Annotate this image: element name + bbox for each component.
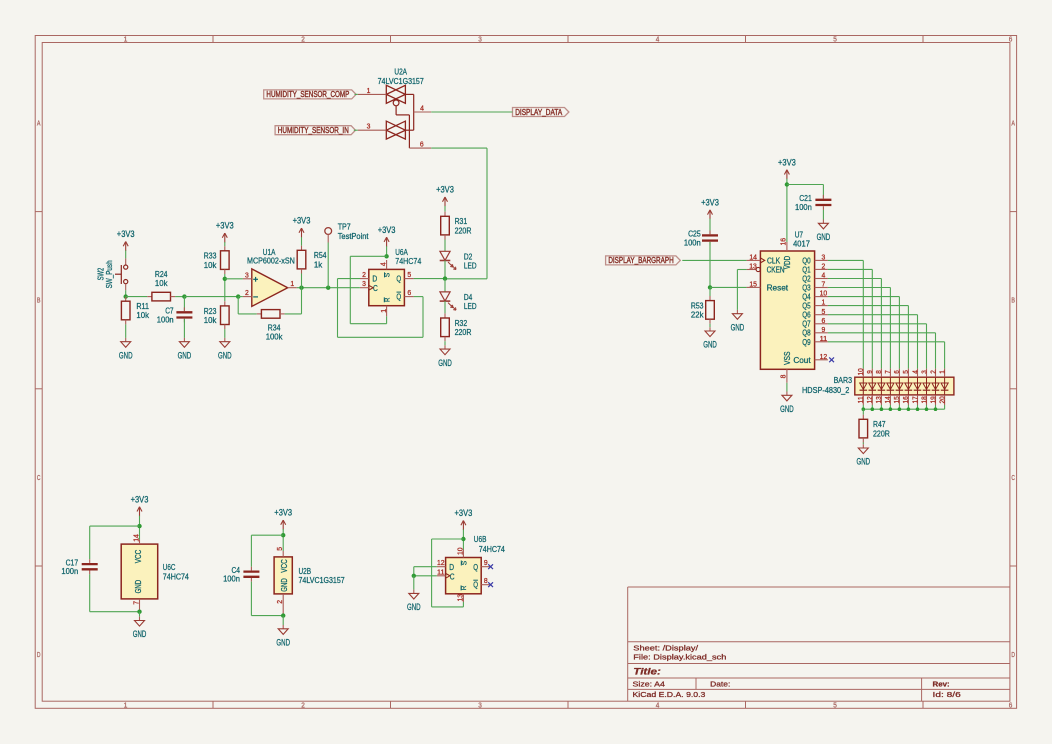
- pin 3 (U1A +): [243, 278, 252, 280]
- pin 2 (U7 Q1): [815, 268, 828, 270]
- svg-text:1: 1: [124, 702, 128, 709]
- svg-text:74HC74: 74HC74: [395, 256, 421, 266]
- bargraph cathode bus wire: [862, 405, 945, 411]
- svg-text:2: 2: [301, 37, 305, 44]
- svg-text:Q8: Q8: [802, 329, 811, 338]
- pin 14 (U7 CLK): [747, 259, 761, 261]
- wire TP7 to output net: [327, 243, 329, 288]
- pin 4 (BAR3 top): [917, 369, 919, 378]
- wire D to GND node: [414, 566, 437, 568]
- junction U6C VCC: [137, 524, 141, 528]
- svg-text:VCC: VCC: [280, 559, 289, 573]
- pin 9 (BAR3 top): [871, 369, 873, 378]
- svg-text:100n: 100n: [684, 238, 701, 248]
- ground (U2B): [276, 625, 290, 648]
- svg-text:13: 13: [876, 396, 883, 403]
- capacitor C7 100n: [157, 297, 193, 338]
- pin 11 (U7 Q9): [815, 341, 828, 343]
- svg-text:A: A: [37, 121, 41, 128]
- pin 8 (U7 VSS): [786, 369, 788, 383]
- svg-text:15: 15: [749, 279, 757, 288]
- feedback wire to R34: [237, 297, 239, 314]
- power +3V3 (R33): [216, 221, 234, 243]
- wire to GND (U6B): [413, 576, 415, 590]
- wire node to D4: [444, 279, 446, 292]
- svg-text:13: 13: [749, 262, 757, 271]
- wire +3V3 to U6B: [462, 529, 464, 549]
- wire R11 to GND: [125, 324, 127, 338]
- wire VCC to C17: [90, 525, 140, 527]
- svg-text:4: 4: [656, 37, 660, 44]
- svg-text:11: 11: [820, 334, 828, 343]
- svg-text:Sheet: /Display/: Sheet: /Display/: [633, 643, 699, 652]
- svg-text:2: 2: [362, 270, 366, 279]
- svg-text:GND: GND: [731, 322, 745, 332]
- svg-text:8: 8: [876, 370, 883, 374]
- svg-text:CLK: CLK: [767, 256, 781, 265]
- svg-text:11: 11: [858, 396, 865, 403]
- global label HUMIDITY_SENSOR_IN: [275, 126, 355, 135]
- svg-text:100n: 100n: [223, 574, 240, 584]
- svg-text:6: 6: [1009, 37, 1013, 44]
- svg-text:5: 5: [822, 307, 826, 316]
- capacitor C21 100n: [795, 193, 831, 212]
- switch SW2 SW_Push: [95, 258, 127, 290]
- svg-text:10k: 10k: [155, 278, 168, 288]
- svg-text:16: 16: [903, 396, 910, 403]
- svg-text:GND: GND: [703, 340, 717, 350]
- wire tap to op-amp pin 3: [225, 278, 243, 280]
- pin 15 (U7 Reset): [747, 286, 761, 288]
- svg-text:100n: 100n: [795, 202, 812, 212]
- svg-text:DISPLAY_BARGRAPH: DISPLAY_BARGRAPH: [608, 256, 673, 265]
- pin 11 (BAR3 bottom): [862, 395, 864, 405]
- wire pin 4 to DISPLAY_DATA: [431, 111, 512, 113]
- pin 3 (U2A B2): [358, 129, 387, 131]
- svg-text:3: 3: [478, 702, 482, 709]
- svg-text:Q3: Q3: [802, 284, 811, 293]
- capacitor C17 100n: [61, 557, 97, 576]
- resistor R47 220R: [859, 409, 890, 442]
- svg-text:100n: 100n: [157, 314, 174, 324]
- pin 12 (U7 Cout): [815, 359, 828, 361]
- junction SW2/R24/R11: [124, 294, 128, 298]
- wire +3V3 to SW2: [125, 250, 127, 258]
- svg-text:C: C: [450, 571, 455, 581]
- svg-text:VSS: VSS: [783, 352, 792, 366]
- pin 16 (U7 VDD): [786, 242, 788, 251]
- no-connect (Cout): [829, 357, 834, 362]
- svg-text:C: C: [373, 283, 378, 293]
- pin 13 (U6B Rbar): [462, 594, 464, 602]
- pin 13 (BAR3 bottom): [880, 395, 882, 405]
- pin 5 (U2B VCC): [282, 551, 284, 557]
- pin 9 (U6B Q): [481, 566, 490, 568]
- ground (U6C): [133, 617, 147, 640]
- pin 3 (BAR3 top): [926, 369, 928, 378]
- svg-text:5: 5: [833, 702, 837, 709]
- wire Q to LED node: [414, 278, 445, 280]
- junction U2B GND: [281, 613, 285, 617]
- pin 8 (U6B Qbar): [481, 584, 490, 586]
- junction divider tap: [223, 277, 227, 281]
- svg-text:8: 8: [778, 375, 787, 379]
- pin 10 (BAR3 top): [862, 369, 864, 378]
- junction LED node: [443, 276, 447, 280]
- resistor R53 22k: [691, 296, 714, 324]
- svg-text:R: R: [459, 585, 468, 590]
- power +3V3 (U6C): [131, 494, 149, 516]
- power +3V3 (U2B): [274, 508, 292, 530]
- svg-text:Q5: Q5: [802, 302, 811, 311]
- svg-text:Q: Q: [473, 580, 478, 590]
- svg-text:+3V3: +3V3: [131, 494, 149, 504]
- svg-text:7: 7: [885, 370, 892, 374]
- svg-text:3: 3: [362, 279, 366, 288]
- pin 6 (U7 Q7): [815, 323, 828, 325]
- svg-text:9: 9: [484, 558, 488, 567]
- svg-text:1: 1: [939, 370, 946, 374]
- ground (R47): [857, 444, 871, 467]
- svg-text:100n: 100n: [61, 566, 78, 576]
- svg-text:2: 2: [822, 262, 826, 271]
- svg-text:9: 9: [822, 325, 826, 334]
- svg-text:TP7: TP7: [338, 221, 351, 231]
- global label DISPLAY_BARGRAPH: [606, 256, 681, 265]
- bargraph BAR3 HDSP-4830_2: [802, 368, 954, 405]
- pin 7 (BAR3 top): [889, 369, 891, 378]
- svg-text:GND: GND: [280, 578, 289, 592]
- svg-text:+3V3: +3V3: [701, 198, 719, 208]
- svg-text:4017: 4017: [793, 239, 810, 249]
- svg-text:74HC74: 74HC74: [163, 571, 189, 581]
- svg-text:DISPLAY_DATA: DISPLAY_DATA: [515, 108, 563, 117]
- svg-text:GND: GND: [119, 350, 133, 360]
- svg-text:GND: GND: [438, 358, 452, 368]
- svg-text:10: 10: [820, 289, 828, 298]
- pin 12 (BAR3 bottom): [871, 395, 873, 405]
- power +3V3 (U7): [778, 157, 796, 179]
- wire IN label to pin 3: [354, 129, 358, 131]
- capacitor C25 100n: [684, 229, 718, 248]
- svg-text:1: 1: [367, 86, 371, 95]
- wire +3V3 to U6A: [386, 246, 388, 256]
- wire R54 to output net: [301, 274, 303, 288]
- ground (U6B): [407, 590, 421, 613]
- pin 11 (U6B CLK): [437, 575, 446, 577]
- svg-text:10k: 10k: [204, 260, 217, 270]
- wire reset to pin 15: [710, 286, 747, 288]
- title block: [628, 587, 1010, 701]
- pin 6 (BAR3 top): [898, 369, 900, 378]
- pin 17 (BAR3 bottom): [917, 395, 919, 405]
- svg-text:3: 3: [921, 370, 928, 374]
- svg-text:SW_Push: SW_Push: [104, 260, 114, 288]
- wire R33 to R23 (divider): [224, 274, 226, 301]
- wire C17 to GND net: [89, 574, 91, 612]
- svg-text:22k: 22k: [691, 310, 704, 320]
- svg-text:Cout: Cout: [793, 356, 811, 365]
- svg-text:14: 14: [131, 534, 140, 542]
- svg-text:B: B: [37, 298, 41, 305]
- svg-text:Q4: Q4: [802, 293, 811, 302]
- junction VDD/C21: [785, 182, 789, 186]
- pin 3 (U6A CLK): [360, 287, 369, 289]
- junction C7: [182, 294, 186, 298]
- svg-text:4: 4: [379, 262, 388, 266]
- svg-text:3: 3: [367, 122, 371, 131]
- svg-text:2: 2: [275, 600, 284, 604]
- resistor R34 100k: [257, 310, 285, 342]
- svg-text:4: 4: [822, 271, 826, 280]
- wire VSS to GND: [786, 383, 788, 392]
- svg-text:GND: GND: [178, 350, 192, 360]
- resistor R11 10k: [121, 297, 149, 325]
- svg-text:4: 4: [656, 702, 660, 709]
- svg-text:11: 11: [437, 567, 445, 576]
- pin 2 (BAR3 top): [935, 369, 937, 378]
- wire pin 6 to Q net: [431, 147, 487, 149]
- svg-text:Size: A4: Size: A4: [633, 680, 665, 689]
- svg-text:+3V3: +3V3: [117, 229, 135, 239]
- svg-text:+3V3: +3V3: [216, 221, 234, 231]
- ground (CKEN): [731, 310, 745, 333]
- svg-text:GND: GND: [218, 350, 232, 360]
- svg-text:B: B: [1011, 298, 1015, 305]
- svg-text:1: 1: [290, 279, 294, 288]
- svg-text:18: 18: [921, 396, 928, 403]
- pin 4 (U6A Sbar): [386, 260, 388, 269]
- svg-text:74LVC1G3157: 74LVC1G3157: [378, 76, 424, 86]
- pin 13 (U7 CKEN): [747, 269, 756, 271]
- svg-text:KiCad E.D.A. 9.0.3: KiCad E.D.A. 9.0.3: [633, 690, 706, 699]
- svg-text:2: 2: [301, 702, 305, 709]
- resistor R33 10k: [204, 246, 229, 274]
- wire U6C to GND: [139, 612, 141, 617]
- svg-text:9: 9: [867, 370, 874, 374]
- wire C4 to GND net: [250, 582, 252, 616]
- svg-text:2: 2: [245, 288, 249, 297]
- wire R32 to GND: [444, 341, 446, 345]
- svg-text:HUMIDITY_SENSOR_IN: HUMIDITY_SENSOR_IN: [278, 126, 349, 135]
- svg-text:4: 4: [912, 370, 919, 374]
- wire CKEN to GND: [737, 269, 746, 271]
- svg-text:6: 6: [822, 316, 826, 325]
- svg-text:12: 12: [820, 352, 828, 361]
- svg-text:5: 5: [903, 370, 910, 374]
- svg-text:20: 20: [939, 396, 946, 403]
- svg-text:GND: GND: [276, 638, 290, 648]
- svg-text:Rev:: Rev:: [933, 680, 950, 689]
- svg-text:MCP6002-xSN: MCP6002-xSN: [247, 256, 295, 266]
- svg-text:7: 7: [132, 601, 141, 605]
- wire Rbar tie loop: [432, 538, 464, 540]
- junction reset: [708, 285, 712, 289]
- svg-text:16: 16: [778, 238, 787, 246]
- svg-text:100k: 100k: [266, 332, 284, 342]
- svg-text:Q: Q: [396, 274, 401, 284]
- svg-text:D: D: [372, 274, 377, 284]
- svg-text:13: 13: [455, 594, 464, 602]
- pin 1 (U2A B1): [358, 93, 387, 95]
- svg-text:D: D: [1011, 652, 1015, 659]
- svg-text:14: 14: [749, 252, 757, 261]
- svg-text:GND: GND: [407, 602, 421, 612]
- pin 4 (U2A A): [414, 111, 432, 113]
- svg-text:+3V3: +3V3: [778, 157, 796, 167]
- pin 6 (U6A Qbar): [404, 296, 413, 298]
- pin 1 (U6A Rbar): [386, 306, 388, 317]
- wire reset to R53: [709, 287, 711, 296]
- pin 8 (BAR3 top): [880, 369, 882, 378]
- junction R54/R34 at output: [299, 286, 303, 290]
- LED D2: [440, 251, 477, 270]
- pin 10 (U7 Q4): [815, 296, 828, 298]
- pin 15 (BAR3 bottom): [898, 395, 900, 405]
- pin 2 (U1A -): [243, 296, 252, 298]
- svg-text:Q2: Q2: [802, 274, 811, 283]
- wire +3V3 to VDD: [786, 179, 788, 242]
- svg-text:+3V3: +3V3: [455, 508, 473, 518]
- wire R53 to GND: [709, 324, 711, 327]
- flip-flop U6A 74HC74: [360, 247, 422, 316]
- wire R23 to GND: [224, 329, 226, 338]
- svg-text:Id: 8/6: Id: 8/6: [933, 690, 961, 699]
- power +3V3 (R54): [293, 216, 311, 238]
- svg-text:6: 6: [420, 140, 424, 149]
- svg-text:+3V3: +3V3: [293, 216, 311, 226]
- pin 14 (BAR3 bottom): [889, 395, 891, 405]
- wire R24 to C7 node: [175, 296, 184, 298]
- ground (U7 VSS): [780, 392, 794, 415]
- svg-text:BAR3: BAR3: [834, 375, 853, 385]
- svg-text:Q0: Q0: [802, 256, 811, 265]
- svg-text:3: 3: [245, 270, 249, 279]
- svg-text:Title:: Title:: [633, 666, 661, 676]
- svg-text:Date:: Date:: [710, 680, 730, 689]
- power +3V3 (C25): [701, 198, 719, 220]
- svg-text:LED: LED: [464, 260, 477, 270]
- ground (R11): [119, 338, 133, 361]
- ground (R23): [218, 338, 232, 361]
- wire R47 to GND: [862, 443, 864, 445]
- resistor R54 1k: [297, 246, 327, 274]
- capacitor C4 100n: [223, 565, 259, 584]
- pin 4 (U7 Q2): [815, 278, 828, 280]
- power +3V3 (U6B): [455, 508, 473, 530]
- svg-text:A: A: [1011, 121, 1015, 128]
- pin 1 (U7 Q5): [815, 305, 828, 307]
- pin 14 (U6C VCC): [139, 540, 141, 544]
- svg-text:10k: 10k: [204, 315, 217, 325]
- svg-text:Q1: Q1: [802, 265, 811, 274]
- wire VCC to C4: [251, 534, 283, 536]
- svg-text:12: 12: [867, 396, 874, 403]
- resistor R24 10k: [147, 269, 175, 301]
- svg-text:+3V3: +3V3: [436, 185, 454, 195]
- svg-text:GND: GND: [134, 580, 143, 594]
- svg-text:U6B: U6B: [474, 534, 487, 544]
- pin 1 (BAR3 top): [944, 369, 946, 378]
- svg-text:4: 4: [420, 104, 424, 113]
- analog switch U2A 74LVC1G3157: [358, 67, 432, 149]
- junction feedback: [236, 294, 240, 298]
- pin 10 (U6B Sbar): [462, 550, 464, 558]
- svg-text:GND: GND: [133, 629, 147, 639]
- svg-text:17: 17: [912, 396, 919, 403]
- wire D4 to R32: [444, 301, 446, 313]
- wire to op-amp pin 2: [238, 296, 243, 298]
- LED D4: [440, 292, 477, 311]
- no-connect (U6B Qbar): [488, 582, 493, 587]
- wire R31 to D2: [444, 240, 446, 252]
- junction U2B VCC: [281, 533, 285, 537]
- wire D loop (Qbar to D): [338, 278, 361, 280]
- svg-text:C: C: [1011, 475, 1015, 482]
- junction U6B: [461, 537, 465, 541]
- svg-text:74HC74: 74HC74: [479, 544, 505, 554]
- wire +3V3 to R54: [301, 237, 303, 246]
- svg-text:CKEN: CKEN: [767, 265, 785, 274]
- pin 2 (U2B GND): [282, 594, 284, 616]
- svg-text:7: 7: [822, 280, 826, 289]
- pin 2 (U6A D): [360, 278, 369, 280]
- wire S/R tie loop: [350, 255, 386, 257]
- pin 6 (U2A S): [409, 147, 431, 149]
- svg-text:10: 10: [455, 547, 464, 555]
- pin 1 (U1A out): [288, 287, 297, 289]
- svg-text:C: C: [37, 475, 41, 482]
- svg-text:1: 1: [822, 298, 826, 307]
- pin 3 (U7 Q0): [815, 259, 828, 261]
- counter U7 4017: [747, 229, 828, 382]
- ground (R32): [438, 345, 452, 368]
- svg-text:74LVC1G3157: 74LVC1G3157: [299, 575, 345, 585]
- power +3V3 (SW2): [117, 229, 135, 251]
- junction TP7: [326, 286, 330, 290]
- global label HUMIDITY_SENSOR_COMP: [264, 90, 356, 99]
- pin 19 (BAR3 bottom): [935, 395, 937, 405]
- svg-text:1k: 1k: [314, 259, 323, 269]
- svg-text:1: 1: [379, 309, 388, 313]
- pin 12 (U6B D): [437, 566, 446, 568]
- wire COMP label to pin 1: [355, 93, 358, 95]
- ground (C7): [178, 338, 192, 361]
- svg-text:220R: 220R: [455, 225, 472, 235]
- power unit U6C 74HC74: [121, 534, 189, 612]
- op-amp U1A MCP6002-xSN: [243, 247, 297, 306]
- wire op-amp out: [297, 287, 360, 289]
- svg-text:Q: Q: [396, 292, 401, 302]
- junction U6C GND: [137, 610, 141, 614]
- no-connect (U6B Q): [488, 564, 493, 569]
- svg-text:19: 19: [930, 396, 937, 403]
- svg-text:Reset: Reset: [767, 283, 789, 292]
- svg-text:220R: 220R: [873, 428, 890, 438]
- pin 18 (BAR3 bottom): [926, 395, 928, 405]
- pin 7 (U6C GND): [139, 599, 141, 612]
- svg-text:Q7: Q7: [802, 320, 811, 329]
- svg-text:220R: 220R: [455, 327, 472, 337]
- wire U2B to GND: [282, 616, 284, 625]
- svg-text:R: R: [382, 297, 391, 302]
- junction U6B grounds: [412, 574, 416, 578]
- svg-text:3: 3: [478, 37, 482, 44]
- svg-text:+3V3: +3V3: [274, 508, 292, 518]
- svg-text:Q: Q: [473, 562, 478, 572]
- svg-text:8: 8: [484, 576, 488, 585]
- svg-text:VDD: VDD: [783, 256, 792, 270]
